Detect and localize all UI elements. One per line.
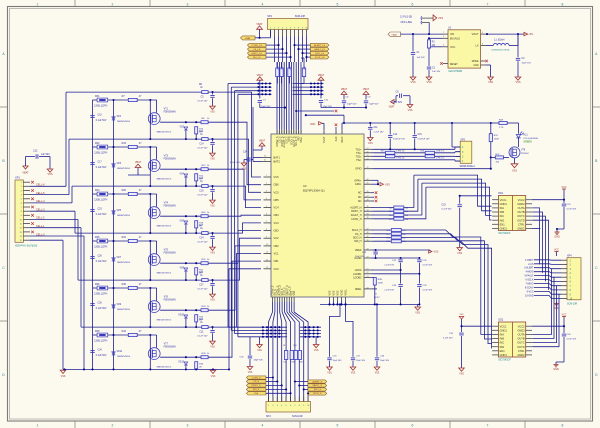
svg-text:HL1: HL1 bbox=[524, 135, 529, 137]
svg-text:6: 6 bbox=[443, 36, 444, 38]
svg-text:4: 4 bbox=[262, 2, 264, 6]
svg-text:SP1: SP1 bbox=[267, 15, 272, 18]
svg-text:NC: NC bbox=[358, 200, 362, 203]
svg-text:VSS: VSS bbox=[210, 252, 215, 254]
svg-text:SCLK_LS: SCLK_LS bbox=[315, 57, 325, 59]
svg-text:14: 14 bbox=[367, 158, 369, 160]
svg-text:IND: IND bbox=[500, 218, 505, 222]
svg-text:4-MOSI: 4-MOSI bbox=[526, 272, 534, 274]
svg-text:VSS: VSS bbox=[459, 314, 464, 316]
svg-text:FYLS-0605GB: FYLS-0605GB bbox=[524, 138, 539, 140]
svg-text:C19: C19 bbox=[199, 191, 204, 193]
svg-text:VC2: VC2 bbox=[274, 236, 280, 240]
svg-text:VC4: VC4 bbox=[274, 206, 280, 210]
svg-text:2-CS: 2-CS bbox=[528, 264, 534, 266]
svg-text:VBAT: VBAT bbox=[259, 140, 266, 143]
svg-text:FDN05NAN: FDN05NAN bbox=[164, 299, 176, 302]
svg-text:VBAT: VBAT bbox=[363, 88, 370, 91]
svg-text:R42: R42 bbox=[199, 319, 204, 321]
svg-text:VSS: VSS bbox=[210, 346, 215, 348]
svg-text:0.1uF 50V: 0.1uF 50V bbox=[197, 101, 208, 103]
svg-text:0.047uF 16V: 0.047uF 16V bbox=[393, 139, 406, 141]
svg-text:VCC: VCC bbox=[561, 186, 566, 189]
svg-text:VT9: VT9 bbox=[521, 150, 526, 152]
svg-text:OUTA: OUTA bbox=[518, 333, 525, 337]
svg-text:3-ALERT: 3-ALERT bbox=[524, 267, 534, 270]
svg-text:VSS: VSS bbox=[314, 350, 319, 352]
svg-text:1M: 1M bbox=[432, 45, 435, 47]
svg-text:R19: R19 bbox=[199, 178, 204, 180]
svg-text:VD1: VD1 bbox=[117, 116, 122, 118]
svg-text:0.1uF 50V: 0.1uF 50V bbox=[197, 336, 208, 338]
svg-text:3: 3 bbox=[443, 45, 444, 47]
svg-text:1.78k 1%: 1.78k 1% bbox=[396, 158, 405, 160]
svg-text:VT3: VT3 bbox=[164, 154, 169, 157]
svg-text:VSS: VSS bbox=[210, 205, 215, 207]
svg-text:XDB-PH-K-S(LF)(SN): XDB-PH-K-S(LF)(SN) bbox=[15, 246, 37, 248]
svg-text:VSS: VSS bbox=[61, 375, 66, 378]
svg-text:6: 6 bbox=[412, 424, 414, 428]
svg-text:MMSZ5V6T1G: MMSZ5V6T1G bbox=[157, 132, 172, 134]
svg-text:10pF 50V: 10pF 50V bbox=[380, 360, 390, 362]
svg-text:FDN05NAN: FDN05NAN bbox=[164, 205, 176, 208]
svg-text:C24: C24 bbox=[199, 238, 204, 240]
svg-text:1206L110TH: 1206L110TH bbox=[94, 293, 107, 295]
svg-text:VSS: VSS bbox=[368, 142, 373, 145]
svg-text:10uF 16V: 10uF 16V bbox=[355, 256, 365, 258]
svg-text:R27: R27 bbox=[199, 225, 204, 227]
svg-text:XP2: XP2 bbox=[460, 139, 465, 142]
svg-text:0.1uF 50V: 0.1uF 50V bbox=[96, 308, 107, 310]
svg-text:5: 5 bbox=[337, 2, 339, 6]
svg-text:VCC1: VCC1 bbox=[500, 324, 507, 328]
svg-text:SCLK_H: SCLK_H bbox=[352, 229, 362, 232]
svg-text:VSS: VSS bbox=[488, 81, 493, 84]
svg-text:VC1: VC1 bbox=[274, 252, 280, 256]
svg-text:1%: 1% bbox=[374, 294, 377, 296]
svg-text:VSS: VSS bbox=[248, 372, 253, 374]
svg-text:TEST: TEST bbox=[323, 136, 326, 143]
svg-text:VSS: VSS bbox=[257, 350, 262, 352]
svg-text:INB: INB bbox=[500, 210, 505, 214]
svg-text:46: 46 bbox=[367, 179, 369, 181]
svg-text:LX: LX bbox=[476, 45, 479, 48]
svg-text:1206L110TH: 1206L110TH bbox=[94, 152, 107, 154]
svg-text:0.1uF 50V: 0.1uF 50V bbox=[230, 162, 241, 164]
svg-text:VBAT: VBAT bbox=[135, 161, 142, 164]
svg-text:VSS: VSS bbox=[434, 251, 439, 254]
svg-text:R44: R44 bbox=[122, 330, 127, 333]
svg-text:1: 1 bbox=[37, 424, 39, 428]
svg-text:0.1uF 50V: 0.1uF 50V bbox=[442, 208, 453, 210]
svg-text:100K: 100K bbox=[378, 283, 384, 285]
svg-text:GREEN: GREEN bbox=[524, 142, 533, 144]
svg-text:1206L110TH: 1206L110TH bbox=[94, 340, 107, 342]
svg-text:CONV_S: CONV_S bbox=[252, 377, 262, 379]
svg-text:41: 41 bbox=[367, 167, 369, 169]
svg-text:VBAT: VBAT bbox=[245, 37, 251, 40]
svg-text:BOST: BOST bbox=[374, 297, 380, 299]
svg-text:ALERT_S: ALERT_S bbox=[312, 380, 322, 383]
svg-text:MMSZ5241B: MMSZ5241B bbox=[117, 121, 130, 123]
svg-text:R31: R31 bbox=[122, 236, 127, 239]
svg-text:C34: C34 bbox=[98, 349, 103, 351]
svg-text:0.1uF 50V: 0.1uF 50V bbox=[96, 261, 107, 263]
svg-text:MMSZ5241B: MMSZ5241B bbox=[117, 309, 130, 311]
svg-text:VD11: VD11 bbox=[117, 351, 123, 353]
svg-text:EN1: EN1 bbox=[500, 349, 506, 353]
svg-text:19: 19 bbox=[367, 257, 369, 259]
svg-text:18: 18 bbox=[367, 249, 369, 251]
svg-text:VSS: VSS bbox=[210, 158, 215, 160]
svg-text:VSS: VSS bbox=[211, 375, 216, 378]
svg-text:3.3uF 50V: 3.3uF 50V bbox=[392, 102, 403, 104]
svg-text:INC: INC bbox=[500, 214, 505, 218]
svg-text:VC3: VC3 bbox=[274, 221, 280, 225]
svg-text:CB2: CB2 bbox=[274, 244, 280, 248]
svg-text:3: 3 bbox=[187, 2, 189, 6]
svg-text:VREF: VREF bbox=[355, 249, 362, 252]
svg-text:INA: INA bbox=[500, 333, 505, 337]
svg-text:CS_S: CS_S bbox=[253, 381, 259, 383]
svg-text:35: 35 bbox=[367, 206, 369, 208]
svg-text:BAT1: BAT1 bbox=[274, 156, 281, 160]
svg-text:0.1uF 50V: 0.1uF 50V bbox=[197, 242, 208, 244]
svg-text:CONV_H: CONV_H bbox=[351, 218, 362, 221]
svg-text:VD8: VD8 bbox=[180, 268, 185, 270]
svg-text:3: 3 bbox=[324, 132, 326, 133]
svg-text:R13: R13 bbox=[122, 142, 127, 145]
svg-text:VCC2: VCC2 bbox=[518, 324, 525, 328]
svg-text:CB3: CB3 bbox=[274, 229, 280, 233]
svg-text:GND2: GND2 bbox=[517, 328, 525, 332]
svg-text:LDOB2: LDOB2 bbox=[353, 277, 362, 280]
svg-text:BQ76PL536A-Q1: BQ76PL536A-Q1 bbox=[303, 189, 325, 193]
svg-text:3: 3 bbox=[187, 424, 189, 428]
svg-text:7: 7 bbox=[487, 424, 489, 428]
svg-text:VSS: VSS bbox=[333, 290, 336, 295]
svg-text:VBAT: VBAT bbox=[318, 74, 325, 77]
svg-text:5: 5 bbox=[337, 424, 339, 428]
svg-text:C13: C13 bbox=[33, 150, 38, 153]
svg-text:A1X: A1X bbox=[335, 136, 338, 141]
svg-text:37: 37 bbox=[367, 229, 369, 231]
svg-text:GND2: GND2 bbox=[517, 202, 525, 206]
svg-text:CB5: CB5 bbox=[274, 198, 280, 202]
svg-text:CONV_LS: CONV_LS bbox=[252, 45, 263, 47]
svg-text:C34: C34 bbox=[243, 152, 248, 154]
svg-text:C14: C14 bbox=[199, 144, 204, 146]
svg-text:FR2: FR2 bbox=[95, 142, 100, 145]
svg-text:VOUT: VOUT bbox=[472, 33, 479, 36]
svg-text:33pF 50V: 33pF 50V bbox=[254, 360, 264, 362]
svg-text:VIN: VIN bbox=[450, 33, 454, 36]
svg-text:VC0: VC0 bbox=[274, 267, 280, 271]
svg-text:GPAI-: GPAI- bbox=[355, 183, 362, 186]
svg-text:VC6: VC6 bbox=[274, 175, 280, 179]
svg-text:VD4: VD4 bbox=[180, 174, 185, 176]
svg-text:SMAB-PASE-2: SMAB-PASE-2 bbox=[460, 165, 476, 168]
svg-text:1: 1 bbox=[37, 2, 39, 6]
svg-text:100K: 100K bbox=[494, 139, 500, 141]
svg-text:SCLK_S: SCLK_S bbox=[313, 393, 322, 395]
svg-text:VSS: VSS bbox=[242, 169, 247, 171]
svg-text:FR5: FR5 bbox=[95, 236, 100, 239]
svg-text:0.1uF 50V: 0.1uF 50V bbox=[197, 289, 208, 291]
svg-text:30: 30 bbox=[301, 131, 303, 133]
svg-text:VD5: VD5 bbox=[117, 210, 122, 212]
svg-text:VC5: VC5 bbox=[274, 190, 280, 194]
svg-text:VDD: VDD bbox=[310, 123, 315, 126]
svg-text:VSS: VSS bbox=[457, 252, 462, 255]
svg-text:SDI_S: SDI_S bbox=[253, 389, 260, 391]
svg-text:XP4: XP4 bbox=[567, 254, 572, 257]
svg-text:MMSZ5V6T1G: MMSZ5V6T1G bbox=[157, 320, 172, 322]
svg-text:0.1uF 50V: 0.1uF 50V bbox=[96, 167, 107, 169]
svg-text:2: 2 bbox=[112, 424, 114, 428]
svg-text:VSS: VSS bbox=[408, 109, 413, 112]
svg-text:OUTB: OUTB bbox=[517, 337, 524, 341]
svg-text:MMSZ5241B: MMSZ5241B bbox=[117, 262, 130, 264]
svg-text:VD7: VD7 bbox=[117, 257, 122, 259]
svg-text:VD9: VD9 bbox=[117, 304, 122, 306]
svg-text:GND: GND bbox=[553, 368, 559, 371]
svg-text:45: 45 bbox=[367, 183, 369, 185]
svg-text:C19: C19 bbox=[442, 204, 447, 206]
svg-text:EN1: EN1 bbox=[500, 222, 506, 226]
svg-text:10pF 50V: 10pF 50V bbox=[369, 104, 379, 106]
svg-text:SP4: SP4 bbox=[266, 415, 271, 418]
svg-text:GPAI+: GPAI+ bbox=[354, 179, 362, 182]
svg-text:ALERT_LS: ALERT_LS bbox=[314, 44, 325, 47]
svg-text:VBAT: VBAT bbox=[389, 106, 395, 109]
svg-text:22: 22 bbox=[367, 272, 369, 274]
svg-text:VCC: VCC bbox=[554, 249, 559, 252]
svg-text:VBAT: VBAT bbox=[391, 34, 397, 37]
svg-text:VSS: VSS bbox=[438, 17, 443, 20]
svg-text:1uF 16V: 1uF 16V bbox=[432, 71, 441, 73]
svg-text:L1 100uH: L1 100uH bbox=[494, 39, 505, 42]
svg-text:7: 7 bbox=[487, 2, 489, 6]
svg-text:C27: C27 bbox=[199, 285, 204, 287]
svg-text:16: 16 bbox=[367, 151, 369, 153]
svg-text:R40: R40 bbox=[122, 283, 127, 286]
svg-text:VCC: VCC bbox=[561, 314, 566, 317]
svg-text:1uF 50V: 1uF 50V bbox=[41, 154, 50, 156]
svg-text:INB: INB bbox=[500, 337, 505, 341]
svg-text:12pF 50V: 12pF 50V bbox=[356, 360, 366, 362]
svg-text:C30: C30 bbox=[98, 302, 103, 304]
svg-text:VSS: VSS bbox=[459, 373, 464, 376]
svg-text:LDOA: LDOA bbox=[355, 269, 362, 272]
svg-text:0.1uF 50V: 0.1uF 50V bbox=[96, 120, 107, 122]
svg-text:28: 28 bbox=[367, 200, 369, 202]
svg-text:VSS: VSS bbox=[210, 299, 215, 301]
svg-text:15: 15 bbox=[367, 155, 369, 157]
svg-text:23: 23 bbox=[367, 276, 369, 278]
svg-text:VSS: VSS bbox=[327, 373, 332, 375]
svg-text:R34: R34 bbox=[199, 272, 204, 274]
svg-text:0.1uF 50V: 0.1uF 50V bbox=[96, 214, 107, 216]
svg-text:1206L110TH: 1206L110TH bbox=[94, 199, 107, 201]
svg-text:2.2uF 16V: 2.2uF 16V bbox=[384, 290, 394, 292]
svg-text:INC: INC bbox=[500, 341, 505, 345]
svg-text:FR8: FR8 bbox=[95, 330, 100, 333]
svg-text:VBAT: VBAT bbox=[341, 88, 348, 91]
svg-text:GND2: GND2 bbox=[517, 353, 525, 357]
svg-text:10pF 50V: 10pF 50V bbox=[347, 104, 357, 106]
svg-text:OUTC: OUTC bbox=[517, 341, 524, 345]
svg-text:FR6: FR6 bbox=[95, 283, 100, 286]
svg-text:C12: C12 bbox=[393, 134, 398, 136]
svg-text:6-SCLK: 6-SCLK bbox=[525, 280, 534, 282]
svg-text:FR4: FR4 bbox=[95, 189, 100, 192]
svg-text:VD6: VD6 bbox=[180, 221, 185, 223]
svg-text:NREL: NREL bbox=[355, 288, 362, 291]
svg-text:VSS: VSS bbox=[415, 312, 420, 315]
svg-text:LQH43CN101K03L: LQH43CN101K03L bbox=[491, 50, 511, 52]
svg-text:VCC: VCC bbox=[450, 46, 455, 49]
svg-text:VMEL: VMEL bbox=[345, 288, 348, 295]
svg-text:VSS: VSS bbox=[512, 170, 517, 173]
svg-text:7: 7 bbox=[443, 32, 444, 34]
svg-text:ISO7240CF: ISO7240CF bbox=[498, 233, 511, 235]
svg-text:6: 6 bbox=[412, 2, 414, 6]
svg-text:OFF-LINE: OFF-LINE bbox=[401, 21, 413, 24]
svg-text:C17: C17 bbox=[98, 161, 103, 163]
svg-text:21: 21 bbox=[367, 269, 369, 271]
svg-text:CS_LS: CS_LS bbox=[253, 49, 260, 51]
svg-text:VD3: VD3 bbox=[117, 163, 122, 165]
svg-text:MMSZ5V6T1G: MMSZ5V6T1G bbox=[157, 367, 172, 369]
svg-text:VDIG: VDIG bbox=[341, 290, 344, 296]
svg-text:SDO_LS: SDO_LS bbox=[315, 53, 324, 55]
svg-text:VCC1: VCC1 bbox=[500, 198, 507, 202]
svg-text:VBAT: VBAT bbox=[257, 74, 264, 77]
svg-text:C28: C28 bbox=[98, 255, 103, 257]
svg-text:XP1: XP1 bbox=[15, 176, 20, 180]
svg-text:OUTB: OUTB bbox=[517, 210, 524, 214]
svg-text:2N7002: 2N7002 bbox=[521, 153, 529, 155]
svg-text:NC: NC bbox=[358, 196, 362, 199]
svg-text:0.047uF 16V: 0.047uF 16V bbox=[418, 139, 431, 141]
svg-text:RESET: RESET bbox=[450, 64, 458, 66]
svg-text:VCC2: VCC2 bbox=[518, 198, 525, 202]
svg-text:3: 3 bbox=[342, 132, 344, 133]
svg-text:VT7: VT7 bbox=[164, 342, 169, 345]
svg-text:MMSZ5V6T1G: MMSZ5V6T1G bbox=[157, 226, 172, 228]
svg-text:EN/UVLO: EN/UVLO bbox=[450, 39, 460, 41]
svg-text:CB1: CB1 bbox=[274, 259, 280, 263]
svg-text:ALERT_H: ALERT_H bbox=[350, 207, 361, 210]
svg-text:MMSZ5241B: MMSZ5241B bbox=[117, 215, 130, 217]
svg-text:1.78k 1%: 1.78k 1% bbox=[396, 150, 405, 152]
svg-text:DRDY_H: DRDY_H bbox=[351, 210, 361, 213]
svg-text:FR1: FR1 bbox=[95, 95, 100, 98]
svg-text:ISO7242CP: ISO7242CP bbox=[498, 360, 511, 362]
svg-text:OUTD: OUTD bbox=[517, 345, 524, 349]
svg-text:MODE: MODE bbox=[472, 61, 479, 63]
svg-text:FDN05NAN: FDN05NAN bbox=[164, 252, 176, 255]
svg-text:10-GND: 10-GND bbox=[525, 295, 534, 297]
svg-text:VSS: VSS bbox=[210, 111, 215, 113]
svg-text:DRDY_LS: DRDY_LS bbox=[252, 53, 263, 55]
svg-text:VSS: VSS bbox=[515, 81, 520, 84]
svg-text:1206L110TH: 1206L110TH bbox=[94, 246, 107, 248]
svg-text:38: 38 bbox=[367, 240, 369, 242]
svg-text:VSS: VSS bbox=[47, 173, 52, 176]
svg-text:J1 PLS-2B: J1 PLS-2B bbox=[400, 15, 412, 18]
svg-text:2.2uF 16V: 2.2uF 16V bbox=[374, 131, 385, 133]
svg-text:NC: NC bbox=[358, 192, 362, 195]
svg-text:SDO_H: SDO_H bbox=[353, 237, 362, 240]
svg-text:C10: C10 bbox=[98, 114, 103, 116]
svg-text:C23: C23 bbox=[98, 208, 103, 210]
svg-text:27: 27 bbox=[367, 196, 369, 198]
svg-text:FDN05NAN: FDN05NAN bbox=[164, 158, 176, 161]
svg-text:INA: INA bbox=[500, 206, 505, 210]
svg-text:1-HDPY: 1-HDPY bbox=[525, 260, 534, 262]
svg-text:9-VCC: 9-VCC bbox=[527, 291, 534, 293]
svg-text:U2: U2 bbox=[303, 184, 307, 188]
svg-text:SDO_S: SDO_S bbox=[314, 389, 322, 391]
svg-text:39: 39 bbox=[367, 236, 369, 238]
svg-text:C31: C31 bbox=[199, 332, 204, 334]
svg-text:VSS: VSS bbox=[375, 373, 380, 375]
svg-text:FAULT_S: FAULT_S bbox=[313, 384, 323, 387]
svg-text:0.1uF 50V: 0.1uF 50V bbox=[443, 338, 453, 340]
svg-text:SCM-10P: SCM-10P bbox=[295, 15, 306, 18]
svg-text:0.1uF 50V: 0.1uF 50V bbox=[197, 195, 208, 197]
svg-text:5-FAULT: 5-FAULT bbox=[524, 275, 534, 278]
svg-text:VBAT: VBAT bbox=[22, 172, 29, 175]
svg-text:SDI_LS: SDI_LS bbox=[253, 57, 261, 59]
svg-text:1.78k 1%: 1.78k 1% bbox=[436, 150, 445, 152]
svg-text:GND: GND bbox=[554, 235, 560, 238]
svg-text:0.1uF 50V: 0.1uF 50V bbox=[197, 148, 208, 150]
svg-text:SCM-10R: SCM-10R bbox=[567, 304, 577, 306]
svg-text:8: 8 bbox=[562, 424, 564, 428]
svg-text:FAULT_H: FAULT_H bbox=[351, 214, 362, 217]
svg-text:VSS: VSS bbox=[337, 290, 340, 295]
svg-text:FDN05NAN: FDN05NAN bbox=[164, 111, 176, 114]
svg-text:R20: R20 bbox=[122, 189, 127, 192]
svg-text:FDN05NAN: FDN05NAN bbox=[164, 346, 176, 349]
svg-text:LDOB1: LDOB1 bbox=[353, 273, 362, 276]
svg-text:0.1uF 50V: 0.1uF 50V bbox=[96, 355, 107, 357]
svg-text:2.7K: 2.7K bbox=[499, 127, 504, 129]
svg-text:VD10: VD10 bbox=[178, 315, 184, 317]
svg-text:17: 17 bbox=[367, 148, 369, 150]
svg-text:CB6: CB6 bbox=[274, 183, 280, 187]
svg-text:VD2: VD2 bbox=[180, 127, 185, 129]
svg-text:VT1: VT1 bbox=[164, 107, 169, 110]
svg-text:34: 34 bbox=[367, 210, 369, 212]
svg-text:GND1: GND1 bbox=[500, 353, 508, 357]
svg-text:10uF 10V: 10uF 10V bbox=[522, 63, 532, 65]
svg-text:HSEL: HSEL bbox=[300, 136, 303, 143]
svg-text:VSS: VSS bbox=[351, 373, 356, 375]
svg-text:32: 32 bbox=[367, 217, 369, 219]
svg-text:1uF 50V: 1uF 50V bbox=[417, 57, 426, 59]
svg-text:FAULT_LS: FAULT_LS bbox=[314, 48, 325, 51]
svg-text:VSS: VSS bbox=[254, 393, 259, 395]
svg-text:VD12: VD12 bbox=[178, 362, 184, 364]
svg-text:DD1: DD1 bbox=[498, 192, 503, 195]
svg-text:0.1uF 50V: 0.1uF 50V bbox=[423, 290, 433, 292]
svg-text:7-MISO: 7-MISO bbox=[526, 284, 534, 286]
svg-text:GPIO: GPIO bbox=[355, 168, 361, 171]
